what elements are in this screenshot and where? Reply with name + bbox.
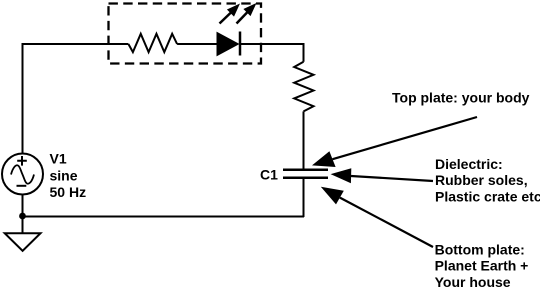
wire: resistor to capacitor top plate bbox=[303, 111, 305, 169]
LED D1 cathode bar bbox=[239, 32, 242, 56]
label Bottom plate block bbox=[435, 241, 529, 287]
svg-text:Bottom plate:: Bottom plate: bbox=[435, 241, 525, 257]
dashed enclosure box (LED + resistor) bbox=[109, 4, 262, 64]
svg-text:Plastic crate etc: Plastic crate etc bbox=[435, 189, 540, 205]
V1 minus sign bbox=[17, 185, 27, 187]
LED light arrow 1 bbox=[220, 4, 241, 24]
wire: left vertical (top corner to source) bbox=[22, 43, 24, 154]
wire: source to ground bbox=[22, 195, 24, 234]
capacitor C1 bottom plate bbox=[283, 177, 328, 180]
annotation arrow: bottom plate callout bbox=[321, 187, 433, 247]
wire: resistor to LED bbox=[177, 43, 217, 45]
V1 sine symbol bbox=[11, 165, 34, 183]
wire: LED to top-right corner bbox=[241, 43, 304, 45]
LED D1 triangle bbox=[217, 33, 239, 56]
svg-text:Dielectric:: Dielectric: bbox=[435, 156, 503, 172]
resistor R2 (vertical, right side) bbox=[294, 62, 313, 112]
svg-text:sine: sine bbox=[50, 168, 78, 184]
svg-text:50 Hz: 50 Hz bbox=[50, 184, 87, 200]
resistor R (horizontal, in dashed box) bbox=[128, 34, 177, 52]
wire: right vertical upper segment bbox=[303, 43, 305, 62]
wire: top-left corner horizontal segment bbox=[23, 43, 129, 45]
svg-text:V1: V1 bbox=[50, 150, 67, 166]
svg-text:Your house: Your house bbox=[435, 274, 511, 287]
annotation arrow: dielectric callout bbox=[331, 168, 433, 183]
voltage source V1 circle bbox=[2, 154, 43, 195]
label Dielectric block bbox=[435, 156, 540, 205]
junction node dot bbox=[19, 213, 26, 220]
svg-text:Planet Earth +: Planet Earth + bbox=[435, 258, 529, 274]
V1 plus sign bbox=[17, 156, 27, 166]
svg-text:Rubber soles,: Rubber soles, bbox=[435, 172, 528, 188]
svg-text:Top plate: your body: Top plate: your body bbox=[392, 90, 530, 106]
LED light arrow 2 bbox=[237, 3, 257, 24]
svg-text:C1: C1 bbox=[260, 167, 278, 183]
ground symbol bbox=[5, 233, 41, 251]
annotation arrow: top plate callout bbox=[312, 117, 477, 167]
capacitor C1 top plate bbox=[283, 169, 328, 172]
wire: capacitor to bottom-right corner bbox=[303, 179, 305, 217]
wire: bottom horizontal bbox=[23, 216, 305, 218]
